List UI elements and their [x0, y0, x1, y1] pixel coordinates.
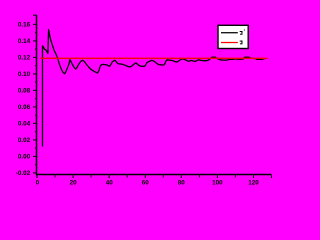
svg-text:0.12: 0.12 — [18, 55, 31, 62]
svg-text:0.00: 0.00 — [18, 154, 31, 161]
y ticks — [33, 15, 37, 173]
y labels — [16, 22, 31, 178]
svg-text:0.10: 0.10 — [18, 71, 31, 78]
svg-text:20: 20 — [70, 179, 78, 186]
svg-text:0: 0 — [36, 179, 40, 186]
legend line 1 sample — [221, 32, 238, 33]
x ticks — [37, 175, 272, 178]
axes — [37, 15, 272, 175]
legend label 2 glyph — [240, 41, 243, 45]
svg-text:0.06: 0.06 — [18, 104, 31, 111]
svg-text:100: 100 — [212, 179, 223, 186]
red reference line — [40, 57, 268, 59]
svg-text:60: 60 — [142, 179, 150, 186]
svg-text:120: 120 — [248, 179, 259, 186]
svg-text:0.02: 0.02 — [18, 137, 31, 144]
svg-text:0.08: 0.08 — [18, 88, 31, 95]
svg-text:0.14: 0.14 — [18, 38, 31, 45]
legend line 2 sample — [221, 42, 238, 43]
svg-text:40: 40 — [106, 179, 114, 186]
x labels — [36, 179, 260, 186]
legend box — [218, 25, 248, 48]
svg-text:0.16: 0.16 — [18, 22, 31, 29]
legend label 1 apostrophe — [244, 30, 245, 31]
svg-text:0.04: 0.04 — [18, 121, 31, 128]
svg-text:80: 80 — [178, 179, 186, 186]
legend label 1 glyph — [240, 31, 243, 35]
svg-text:-0.02: -0.02 — [16, 170, 31, 177]
data curve — [43, 30, 265, 147]
